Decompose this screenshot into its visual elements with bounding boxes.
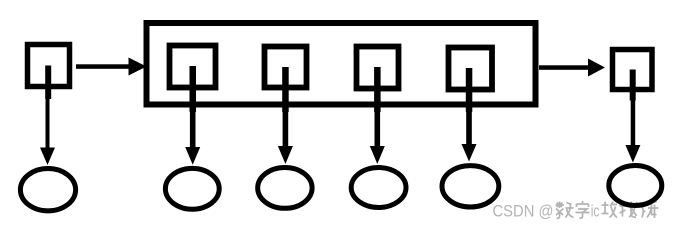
stem 4 bbox=[466, 68, 473, 112]
down arrow from right pointer bbox=[631, 98, 636, 146]
stem 2 bbox=[282, 67, 289, 112]
watermark glyph 城 bbox=[620, 202, 639, 218]
ellipse 4 bbox=[351, 168, 406, 208]
inner square 1 bbox=[170, 46, 216, 88]
ellipse 1 (object under left pointer) bbox=[20, 169, 75, 211]
watermark glyph 攻 bbox=[602, 202, 618, 218]
right pointer square bbox=[613, 50, 653, 90]
svg-text:ic: ic bbox=[591, 202, 600, 221]
wire: arrow into big rectangle bbox=[76, 64, 131, 69]
down arrow 1 from square 1 bbox=[190, 110, 196, 150]
inner square 2 bbox=[265, 47, 307, 88]
ellipse 3 bbox=[258, 168, 312, 209]
stem 3 bbox=[374, 67, 381, 112]
down arrow from left pointer bbox=[46, 96, 50, 149]
big rectangle (list container) bbox=[147, 23, 536, 105]
right pointer stem bbox=[630, 70, 636, 101]
watermark glyph 狮 bbox=[640, 201, 659, 218]
down arrow 2 from square 2 bbox=[283, 110, 289, 149]
ellipse 6 (object under right pointer) bbox=[609, 166, 662, 206]
inner square 4 bbox=[449, 48, 493, 90]
down arrow 3 from square 3 bbox=[375, 110, 381, 148]
watermark glyph 字 bbox=[576, 201, 590, 218]
ellipse 2 bbox=[165, 168, 219, 209]
left pointer stem bbox=[45, 66, 51, 100]
watermark glyph 数 bbox=[556, 202, 574, 219]
inner square 3 bbox=[357, 47, 399, 89]
down arrow 4 from square 4 bbox=[466, 110, 472, 145]
stem 1 bbox=[190, 66, 197, 112]
svg-text:CSDN @: CSDN @ bbox=[493, 202, 554, 221]
left pointer square bbox=[28, 45, 70, 87]
wire: arrow out of big rectangle bbox=[539, 65, 590, 70]
ellipse 5 bbox=[442, 166, 499, 207]
